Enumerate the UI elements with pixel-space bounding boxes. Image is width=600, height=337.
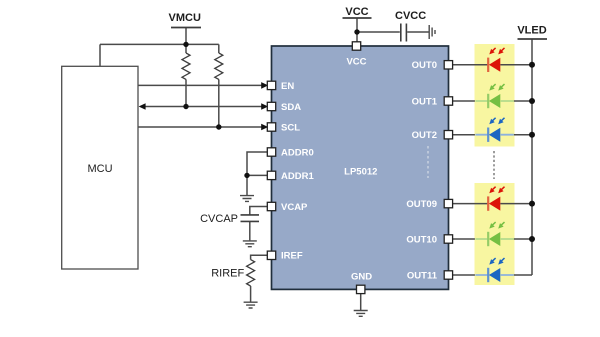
svg-text:RIREF: RIREF — [211, 267, 244, 279]
svg-text:OUT11: OUT11 — [407, 270, 438, 281]
svg-text:VCAP: VCAP — [281, 202, 308, 213]
svg-text:ADDR1: ADDR1 — [281, 171, 314, 182]
svg-text:SCL: SCL — [281, 122, 300, 133]
svg-text:OUT09: OUT09 — [406, 199, 437, 210]
svg-text:LP5012: LP5012 — [344, 167, 377, 178]
svg-text:OUT10: OUT10 — [406, 234, 437, 245]
svg-text:VCC: VCC — [346, 57, 366, 68]
svg-text:GND: GND — [351, 272, 372, 283]
svg-text:CVCC: CVCC — [395, 10, 426, 22]
svg-text:OUT0: OUT0 — [412, 60, 437, 71]
svg-text:ADDR0: ADDR0 — [281, 147, 314, 158]
svg-text:IREF: IREF — [281, 251, 303, 262]
svg-text:VLED: VLED — [517, 25, 546, 37]
svg-text:OUT1: OUT1 — [412, 96, 438, 107]
svg-text:EN: EN — [281, 81, 294, 92]
svg-text:SDA: SDA — [281, 102, 301, 113]
svg-text:VMCU: VMCU — [169, 12, 201, 24]
svg-text:OUT2: OUT2 — [412, 130, 437, 141]
svg-text:VCC: VCC — [345, 6, 368, 18]
svg-text:MCU: MCU — [87, 163, 112, 175]
svg-text:CVCAP: CVCAP — [200, 213, 238, 225]
